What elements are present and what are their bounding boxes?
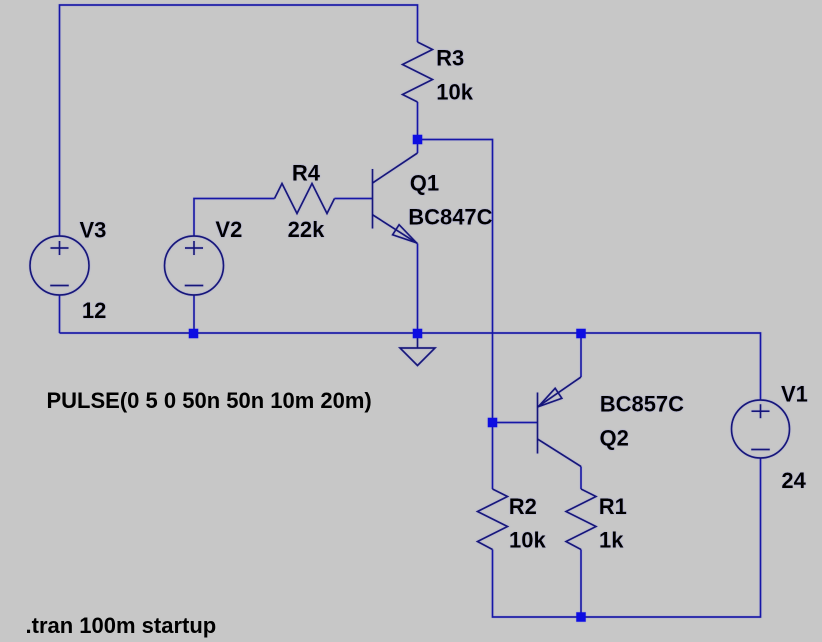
wire Q2 base: [493, 422, 538, 424]
svg-text:R3: R3: [436, 46, 464, 71]
wire Q2 emitter lead: [580, 333, 582, 377]
svg-text:V1: V1: [781, 382, 808, 407]
wire R4 to Q1 base: [335, 198, 373, 200]
node junction bottom rail: [576, 612, 586, 622]
svg-text:BC857C: BC857C: [600, 392, 684, 417]
svg-text:Q1: Q1: [410, 171, 439, 196]
svg-text:Q2: Q2: [600, 426, 629, 451]
wire Q2 collector lead: [580, 467, 582, 490]
resistor R3: [403, 42, 433, 102]
svg-text:1k: 1k: [599, 527, 624, 552]
svg-text:12: 12: [82, 298, 106, 323]
wire V2 top lead to R4: [194, 199, 275, 237]
wire ground bus: [60, 333, 761, 401]
svg-text:24: 24: [781, 468, 806, 493]
svg-text:10k: 10k: [509, 527, 546, 552]
wire Q1 collector stub: [417, 140, 419, 154]
svg-text:V3: V3: [80, 217, 107, 242]
svg-text:R4: R4: [292, 161, 321, 186]
node junction Q2 base / R2: [488, 418, 498, 428]
transistor Q1: [373, 153, 418, 244]
voltage source V3: [30, 236, 89, 295]
node junction R3/collector: [413, 135, 423, 145]
svg-text:22k: 22k: [288, 217, 325, 242]
svg-text:10k: 10k: [436, 80, 473, 105]
svg-text:PULSE(0 5 0 50n 50n 10m 20m): PULSE(0 5 0 50n 50n 10m 20m): [47, 388, 372, 413]
svg-text:BC847C: BC847C: [408, 205, 492, 230]
wire node to Q2 base net vertical: [418, 140, 493, 490]
wire V2 bottom lead: [193, 295, 195, 334]
wire R1 bottom lead: [580, 550, 582, 618]
resistor R2: [478, 489, 508, 550]
svg-text:R2: R2: [509, 494, 537, 519]
wire R3 bottom to node: [417, 102, 419, 140]
voltage source V2: [165, 236, 224, 295]
node junction emitter/ground on bus: [413, 329, 423, 339]
svg-text:V2: V2: [215, 217, 242, 242]
wire top rail from V3 to R3: [60, 5, 418, 236]
wire Q1 emitter lead: [417, 244, 419, 334]
wire bottom rail: [493, 458, 761, 617]
resistor R1: [566, 489, 596, 550]
transistor Q2: [538, 377, 582, 467]
ground: [400, 333, 435, 366]
resistor R4: [275, 184, 335, 214]
wire V3 bottom lead: [59, 295, 61, 333]
voltage source V1: [732, 400, 790, 458]
svg-text:R1: R1: [599, 494, 627, 519]
svg-text:.tran 100m startup: .tran 100m startup: [26, 613, 217, 638]
node junction Q2 emitter on bus: [576, 329, 586, 339]
node junction V2 on bus: [189, 329, 199, 339]
